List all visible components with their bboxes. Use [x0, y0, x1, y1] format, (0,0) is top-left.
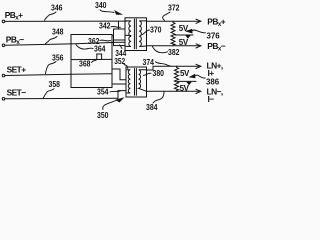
svg-text:354: 354	[97, 88, 109, 97]
svg-text:I−: I−	[208, 94, 215, 104]
terminal PBx-	[2, 44, 5, 47]
arrowhead 350	[115, 97, 124, 102]
arrowhead 376 left	[185, 29, 193, 34]
transformer T1 box	[125, 18, 147, 51]
wire PBx+ output	[147, 20, 200, 22]
svg-text:5V: 5V	[179, 38, 189, 47]
leader 358	[43, 89, 54, 98]
wire PBx- output	[147, 45, 200, 47]
svg-text:5V: 5V	[180, 69, 190, 78]
T1 core	[133, 19, 135, 49]
arrow PBx- output	[196, 44, 201, 48]
svg-text:5V: 5V	[179, 24, 189, 33]
wire inside box (368 branch)	[71, 58, 112, 60]
wire box to component box	[112, 35, 114, 37]
leader 374	[156, 62, 171, 66]
svg-text:PBx+: PBx+	[5, 10, 23, 22]
leader 380	[144, 73, 152, 75]
box 342 network	[71, 35, 112, 88]
arrowhead 376 down	[185, 35, 190, 38]
svg-text:350: 350	[97, 111, 109, 120]
arrow PBx+ output	[196, 19, 201, 23]
leader 340	[100, 10, 114, 13]
svg-text:386: 386	[206, 78, 220, 87]
wire SET+ input	[5, 74, 112, 76]
resistor lower bias pair	[174, 66, 178, 91]
wire PBx+ tap	[118, 21, 120, 29]
leader 364	[76, 45, 93, 50]
svg-text:356: 356	[52, 53, 64, 62]
resistor upper bias pair	[171, 21, 175, 46]
svg-text:SET+: SET+	[7, 64, 27, 74]
svg-text:352: 352	[114, 57, 125, 66]
leader 384	[153, 92, 164, 103]
svg-text:384: 384	[146, 103, 158, 112]
T2 core	[134, 69, 136, 96]
leader 344	[120, 45, 123, 49]
wire SET- input	[5, 97, 118, 100]
leader 370	[142, 30, 150, 35]
wire SET- riser	[118, 91, 126, 99]
svg-text:PBx−: PBx−	[6, 34, 24, 46]
svg-text:382: 382	[168, 48, 180, 57]
wire PBx- input	[5, 43, 112, 46]
svg-text:370: 370	[150, 25, 162, 34]
leader 368	[92, 60, 97, 63]
svg-text:376: 376	[207, 32, 221, 41]
svg-text:340: 340	[95, 1, 107, 10]
transformer T2 box	[126, 67, 147, 97]
leader 342	[111, 25, 121, 28]
node line 5V lower	[178, 80, 197, 82]
T1 secondary winding	[139, 21, 146, 47]
wire I- output	[147, 90, 200, 92]
leader 362	[100, 39, 111, 42]
leader 372	[163, 12, 170, 20]
wire PBx+ input	[5, 20, 127, 22]
terminal SET+	[2, 74, 5, 77]
leader 350	[103, 100, 117, 110]
terminal PBx+	[2, 20, 5, 23]
svg-text:364: 364	[94, 45, 106, 54]
svg-text:368: 368	[79, 60, 91, 69]
svg-text:358: 358	[49, 80, 61, 89]
svg-text:374: 374	[143, 58, 155, 67]
svg-text:PBx+: PBx+	[207, 16, 225, 28]
svg-text:380: 380	[153, 69, 165, 78]
wire to T2 upper	[112, 69, 126, 80]
leader 352	[124, 65, 128, 69]
svg-text:I+: I+	[208, 68, 215, 78]
svg-text:346: 346	[51, 3, 63, 12]
wire to T2 mid	[112, 83, 126, 85]
leader 376	[193, 30, 206, 33]
leader 348	[46, 37, 58, 44]
wire to T1 primary bottom	[114, 40, 126, 46]
arrowhead 386 down	[186, 82, 192, 86]
leader 356	[46, 62, 57, 74]
svg-text:SET−: SET−	[7, 87, 27, 97]
svg-text:372: 372	[168, 4, 180, 13]
arrowhead 340	[114, 10, 123, 15]
arrowhead 386 left	[189, 74, 196, 79]
T2 primary winding	[126, 70, 130, 93]
leader 382	[152, 46, 167, 53]
wire to T1 primary mid	[112, 41, 125, 43]
arrow LN- output	[196, 89, 201, 93]
arrow LN+ output	[196, 64, 201, 68]
node line 5V upper	[175, 34, 193, 36]
T1 primary winding	[125, 21, 131, 47]
svg-text:5V: 5V	[180, 84, 190, 93]
svg-text:342: 342	[99, 22, 111, 31]
component box between 342 and T1	[114, 29, 126, 40]
leader 354	[110, 90, 120, 93]
T1 primary tap	[125, 34, 131, 36]
svg-text:PBx−: PBx−	[207, 41, 225, 53]
leader 346	[45, 12, 57, 20]
component 368	[97, 54, 102, 60]
leader 386	[196, 75, 206, 78]
wire LN output jog	[147, 66, 200, 70]
svg-text:348: 348	[52, 28, 64, 37]
T2 secondary winding	[139, 70, 147, 92]
terminal SET-	[2, 98, 5, 101]
